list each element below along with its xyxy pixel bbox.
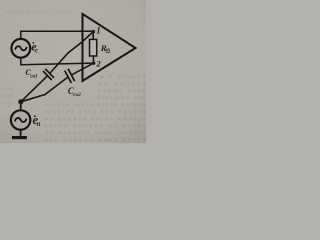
wire: line A from junction through C_sv1 to node 1 [21,76,47,102]
resistor bottom lead [92,56,94,61]
capacitor C_sv1 plates [43,71,52,80]
AC source E_p (interference source) [11,110,30,129]
wire: top rail from E_c to node 1 [21,31,94,39]
svg-text:св1: св1 [30,73,37,79]
junction node dot [18,99,23,104]
op-amp amplifier triangle [83,14,136,81]
svg-text:с: с [35,46,38,54]
wire: bottom rail from E_c to node 2 [21,58,94,65]
svg-text:о щуб: о щуб [1,92,14,99]
wire: line B from junction through C_sv2 to node 2 [21,77,68,102]
svg-text:п: п [37,120,41,128]
svg-text:вшит: вшит [1,86,14,92]
sine tilde of E_p [15,118,27,122]
svg-text:1: 1 [96,26,101,36]
wire: junction to noise source E_p [20,104,22,111]
resistor R_vx body [90,39,97,56]
sine tilde of E_c [15,46,27,50]
svg-text:по вопросу ание соответ: по вопросу ание соответ [46,130,146,136]
capacitor C_sv2 plates [65,71,72,83]
node 2 dot [92,61,96,65]
paper background [0,0,146,143]
resistor top lead [92,33,94,39]
node 1 dot [92,30,96,33]
svg-text:их примен ность выходн: их примен ность выходн [45,116,146,122]
svg-text:2: 2 [95,59,101,69]
ground lead [20,130,22,137]
svg-text:прочем напря вания напряж: прочем напря вания напряж [45,102,146,108]
svg-text:в ли: в ли [1,100,13,106]
AC source E_c (signal source, circle with sine) [11,39,30,58]
ground bar [12,136,27,139]
svg-text:эолосой вход них примен: эолосой вход них примен [44,108,146,115]
svg-text:алтео н скоро гряб: алтео н скоро гряб [5,8,71,15]
svg-text:св2: св2 [73,92,81,98]
svg-text:ав выходн: ав выходн [99,81,146,87]
